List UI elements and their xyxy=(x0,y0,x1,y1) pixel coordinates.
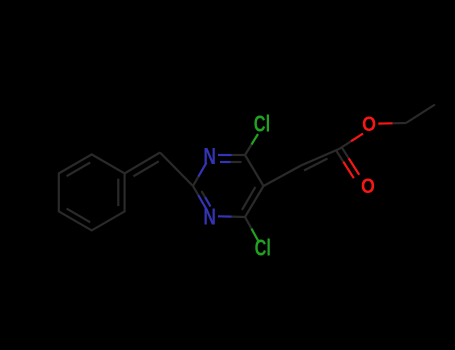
svg-text:Cl: Cl xyxy=(254,111,270,137)
styryl vinyl bond Cb=Ca (double) xyxy=(125,153,160,177)
bond Cc-O (ester single) xyxy=(339,141,351,149)
bond C2-N1 xyxy=(193,177,198,186)
svg-text:N: N xyxy=(203,204,216,230)
phenyl ring C6H5 xyxy=(59,154,125,230)
bond C5-Cv1 (acrylate, single) xyxy=(264,166,302,187)
bond C4-Cl (top) xyxy=(245,145,252,156)
bond C6-N3 xyxy=(232,216,246,219)
bond Cc=O (carbonyl double) xyxy=(342,147,349,158)
svg-text:O: O xyxy=(362,113,376,136)
bond C5=C6 (double) xyxy=(245,186,264,217)
bond Ca-C2 (single) xyxy=(160,153,193,187)
bond N3=C2 (double) xyxy=(198,195,206,209)
bond CH2-CH3 xyxy=(406,105,435,124)
svg-text:O: O xyxy=(361,175,375,198)
bond O-CH2 xyxy=(378,122,392,124)
bond Cv1=Cc (double) xyxy=(301,149,339,171)
bond N1=C4 (double) xyxy=(218,154,232,156)
bond C4-C5 xyxy=(245,155,264,186)
bond C6-Cl (bottom) xyxy=(245,217,252,229)
svg-text:N: N xyxy=(203,143,216,169)
svg-text:Cl: Cl xyxy=(255,235,271,261)
